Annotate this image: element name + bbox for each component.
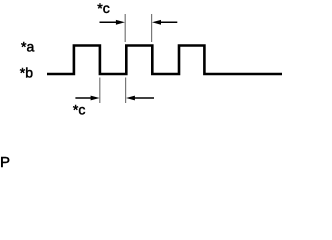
svg-text:P: P	[0, 154, 10, 168]
svg-text:*c: *c	[97, 0, 109, 16]
svg-text:*c: *c	[73, 102, 85, 118]
svg-text:*b: *b	[20, 65, 33, 81]
svg-text:*a: *a	[21, 38, 34, 54]
